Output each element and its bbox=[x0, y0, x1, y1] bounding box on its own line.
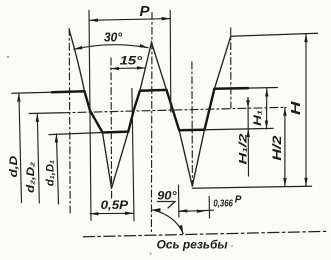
arrow 15deg right bbox=[137, 66, 146, 69]
svg-text:d₂,D₂: d₂,D₂ bbox=[25, 162, 37, 193]
tooth1 apex thin flank bbox=[69, 30, 84, 92]
tooth3 apex thin flank bbox=[214, 36, 230, 88]
arrow P left bbox=[89, 19, 98, 23]
tooth2 apex thin V bbox=[140, 43, 167, 91]
groove2 sharp V thin bbox=[179, 130, 204, 187]
arrow H top bbox=[304, 34, 307, 43]
svg-text:Н₁/2: Н₁/2 bbox=[238, 134, 250, 165]
center line tooth3 bbox=[230, 28, 232, 108]
paper specks bbox=[7, 56, 233, 255]
arrow d2,D2 up bbox=[36, 113, 39, 122]
arrow H1/2 up (below root line) bbox=[247, 129, 250, 138]
tooth3 left flank bold bbox=[205, 89, 215, 130]
center line groove2 bbox=[191, 62, 194, 184]
arrow H bottom bbox=[304, 178, 307, 187]
arrow H1 top bbox=[265, 88, 268, 97]
arrow d,D up bbox=[17, 93, 20, 102]
arrow 90deg arc top bbox=[152, 208, 161, 211]
arrow H/2 top bbox=[283, 107, 286, 116]
P extension line left (also 0.5P left) bbox=[89, 10, 91, 220]
svg-text:15°: 15° bbox=[120, 54, 143, 68]
arrow H/2 bottom bbox=[283, 178, 286, 187]
H1 dimension vertical bbox=[266, 88, 268, 129]
H1/2 dimension vertical bbox=[247, 98, 250, 177]
H dimension vertical bbox=[305, 34, 307, 187]
root leader line left bbox=[49, 133, 103, 135]
30deg arc bbox=[74, 45, 148, 50]
P dimension line bbox=[89, 19, 170, 21]
arrow 0.5P right bbox=[125, 212, 134, 215]
groove1 sharp V thin bbox=[103, 132, 129, 189]
0.366P extension left bbox=[178, 185, 180, 217]
arrow P right bbox=[162, 17, 171, 21]
crest extension line right bbox=[248, 87, 278, 90]
svg-text:90°: 90° bbox=[157, 189, 177, 203]
svg-text:Ось резьбы: Ось резьбы bbox=[157, 237, 229, 251]
tooth1 crest flat (bold) bbox=[52, 90, 85, 93]
groove2 root flat (bold) bbox=[179, 128, 204, 131]
arrow 0.5P left bbox=[90, 212, 99, 215]
d1,D1 dimension vertical bbox=[56, 134, 58, 204]
svg-text:0,5Р: 0,5Р bbox=[101, 200, 129, 212]
tooth2 right flank bold bbox=[167, 90, 180, 130]
svg-text:Н: Н bbox=[288, 101, 303, 115]
arrow d1,D1 up bbox=[55, 134, 58, 143]
top sharp-crest line bbox=[231, 33, 318, 36]
root extension line right bbox=[205, 128, 274, 129]
tooth3 crest flat (bold) bbox=[214, 87, 248, 90]
0.366P dimension line bbox=[179, 210, 214, 211]
svg-text:30°: 30° bbox=[104, 30, 123, 44]
P extension line right bbox=[169, 11, 172, 113]
svg-text:Н/2: Н/2 bbox=[272, 135, 284, 161]
arrow H1 bottom bbox=[265, 121, 268, 130]
arrow 15deg left bbox=[111, 67, 120, 70]
pitch line solid left part bbox=[29, 112, 62, 115]
arrow 0.366P left bbox=[179, 209, 188, 212]
H/2 dimension vertical bbox=[284, 107, 286, 186]
bottom sharp-root line bbox=[192, 186, 311, 188]
svg-text:0,366: 0,366 bbox=[213, 197, 233, 209]
svg-text:Р: Р bbox=[140, 3, 151, 20]
center line groove1 bbox=[110, 58, 113, 200]
groove1 right flank bold bbox=[128, 91, 140, 132]
0.5P dimension line bbox=[90, 212, 134, 214]
groove1 root flat (bold) bbox=[103, 130, 129, 133]
pitch dash-dot line d2 level bbox=[62, 107, 286, 113]
arrow H1/2 down (above pitch line) bbox=[246, 100, 249, 109]
svg-text:Р: Р bbox=[235, 194, 242, 205]
thread axis dash-dot line bbox=[83, 231, 329, 237]
arrow 30deg right bbox=[139, 44, 148, 48]
svg-text:d₁,D₁: d₁,D₁ bbox=[44, 160, 56, 186]
90deg arc bbox=[152, 210, 183, 234]
arrow 90deg arc bottom bbox=[179, 225, 183, 234]
0.366P extension right bbox=[208, 196, 210, 218]
arrow 30deg left bbox=[74, 46, 83, 49]
d2,D2 dimension vertical bbox=[37, 113, 39, 203]
center line tooth1 bbox=[69, 29, 70, 214]
arrow 0.366P right bbox=[197, 210, 205, 213]
tooth2 crest flat (bold) bbox=[140, 89, 167, 92]
tooth1 right flank bold bbox=[85, 91, 103, 132]
svg-text:d,D: d,D bbox=[8, 156, 20, 178]
15deg dimension line bbox=[111, 67, 146, 70]
90deg label underline and tick bbox=[157, 202, 175, 209]
crest leader line d,D level bbox=[12, 92, 52, 93]
center line tooth2 bbox=[150, 13, 153, 235]
svg-text:Н₁: Н₁ bbox=[252, 110, 264, 126]
d,D dimension vertical bbox=[19, 93, 22, 202]
0.5P extension right bbox=[132, 89, 134, 222]
